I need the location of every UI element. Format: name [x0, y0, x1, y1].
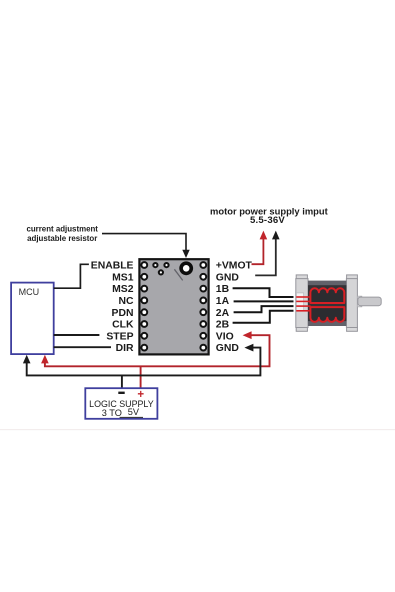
potentiometer R1 (current adjust) [179, 261, 193, 275]
arrowhead into MCU (red, up) [41, 355, 49, 364]
motor lead stripe 1A [296, 300, 310, 302]
svg-text:1B: 1B [216, 284, 230, 295]
pin pad 1B [200, 286, 206, 292]
motor body [308, 281, 346, 326]
svg-text:PDN: PDN [112, 308, 134, 319]
motor lead stripe 2A [296, 305, 310, 307]
jumper pad J3 [159, 270, 163, 274]
wire VIO from logic supply + (red) [45, 335, 270, 366]
motor left cap [296, 275, 307, 279]
annotation arrow to potentiometer [102, 234, 190, 258]
motor coil bottom [310, 307, 344, 322]
potentiometer slot mark [174, 269, 182, 280]
wire logic - branch (black) [121, 375, 123, 388]
motor lead stripe 1B [296, 296, 310, 298]
svg-text:2B: 2B [216, 320, 230, 331]
motor lead stripe 2B [296, 310, 310, 312]
svg-text:NC: NC [118, 296, 134, 307]
svg-text:current adjustment: current adjustment [26, 224, 98, 233]
pin pad DIR [141, 345, 147, 351]
arrowhead +VMOT supply (red, up) [260, 231, 268, 240]
svg-text:3 TO: 3 TO [102, 408, 122, 418]
pin pad 1A [200, 298, 206, 304]
svg-text:+VMOT: +VMOT [216, 261, 253, 272]
pin pad GND motor [200, 274, 206, 280]
svg-text:2A: 2A [216, 308, 230, 319]
pin pad MS2 [141, 286, 147, 292]
arrowhead into MCU (black, up) [23, 355, 31, 364]
jumper pad J1 [153, 263, 157, 267]
svg-text:CLK: CLK [112, 320, 134, 331]
wire ENABLE to MCU [54, 264, 89, 288]
MCU U2 box [11, 283, 54, 355]
pin pad NC [141, 298, 147, 304]
motor shaft [358, 297, 381, 306]
logic supply terminal - [118, 392, 124, 394]
pin pad 2A [200, 309, 206, 315]
svg-text:VIO: VIO [216, 331, 234, 342]
svg-text:MS2: MS2 [112, 284, 134, 295]
arrowhead VIO (red, left) [243, 331, 252, 339]
motor right cap [347, 275, 358, 279]
svg-text:5V: 5V [128, 407, 140, 417]
motor shaft hub [357, 296, 361, 307]
svg-text:adjustable resistor: adjustable resistor [27, 234, 97, 243]
driver board U1 [139, 259, 208, 354]
svg-text:1A: 1A [216, 296, 230, 307]
svg-text:MCU: MCU [19, 287, 39, 297]
svg-text:GND: GND [216, 343, 240, 354]
svg-text:STEP: STEP [106, 331, 133, 342]
svg-text:5.5-36V: 5.5-36V [250, 215, 285, 226]
motor coil top [310, 288, 344, 303]
svg-text:GND: GND [216, 272, 240, 283]
pin pad PDN [141, 309, 147, 315]
arrowhead GND supply (black, up) [272, 231, 280, 240]
svg-text:ENABLE: ENABLE [91, 261, 134, 272]
svg-text:MS1: MS1 [112, 272, 134, 283]
wire GND to power supply (black) [255, 239, 276, 276]
wire 2A to motor [234, 306, 294, 312]
logic supply PS1 box [85, 388, 157, 419]
logic supply voltage underline [120, 416, 143, 418]
wire STEP to MCU [54, 334, 100, 336]
wire 1A to motor [234, 300, 294, 302]
pin pad VIO [200, 333, 206, 339]
stepper motor M1 [296, 275, 381, 331]
pin pad CLK [141, 321, 147, 327]
wire DIR to MCU [54, 346, 111, 348]
faint separator line [0, 429, 395, 430]
wire +VMOT to power supply (red) [252, 239, 264, 265]
motor wire connector block [296, 293, 303, 311]
pin pad MS1 [141, 274, 147, 280]
wire 1B to motor [233, 288, 294, 297]
wire GND from logic supply - (black) [27, 348, 261, 376]
pin pad GND logic [200, 345, 206, 351]
pin pad ENABLE [141, 262, 147, 268]
pin pad STEP [141, 333, 147, 339]
wire logic + branch (red) [140, 366, 142, 388]
arrowhead GND (black, left) [244, 344, 253, 352]
jumper pad J2 [164, 263, 168, 267]
pin pad +VMOT [200, 262, 206, 268]
pin pad 2B [200, 321, 206, 327]
svg-text:DIR: DIR [116, 343, 134, 354]
wire 2B to motor [233, 311, 294, 323]
